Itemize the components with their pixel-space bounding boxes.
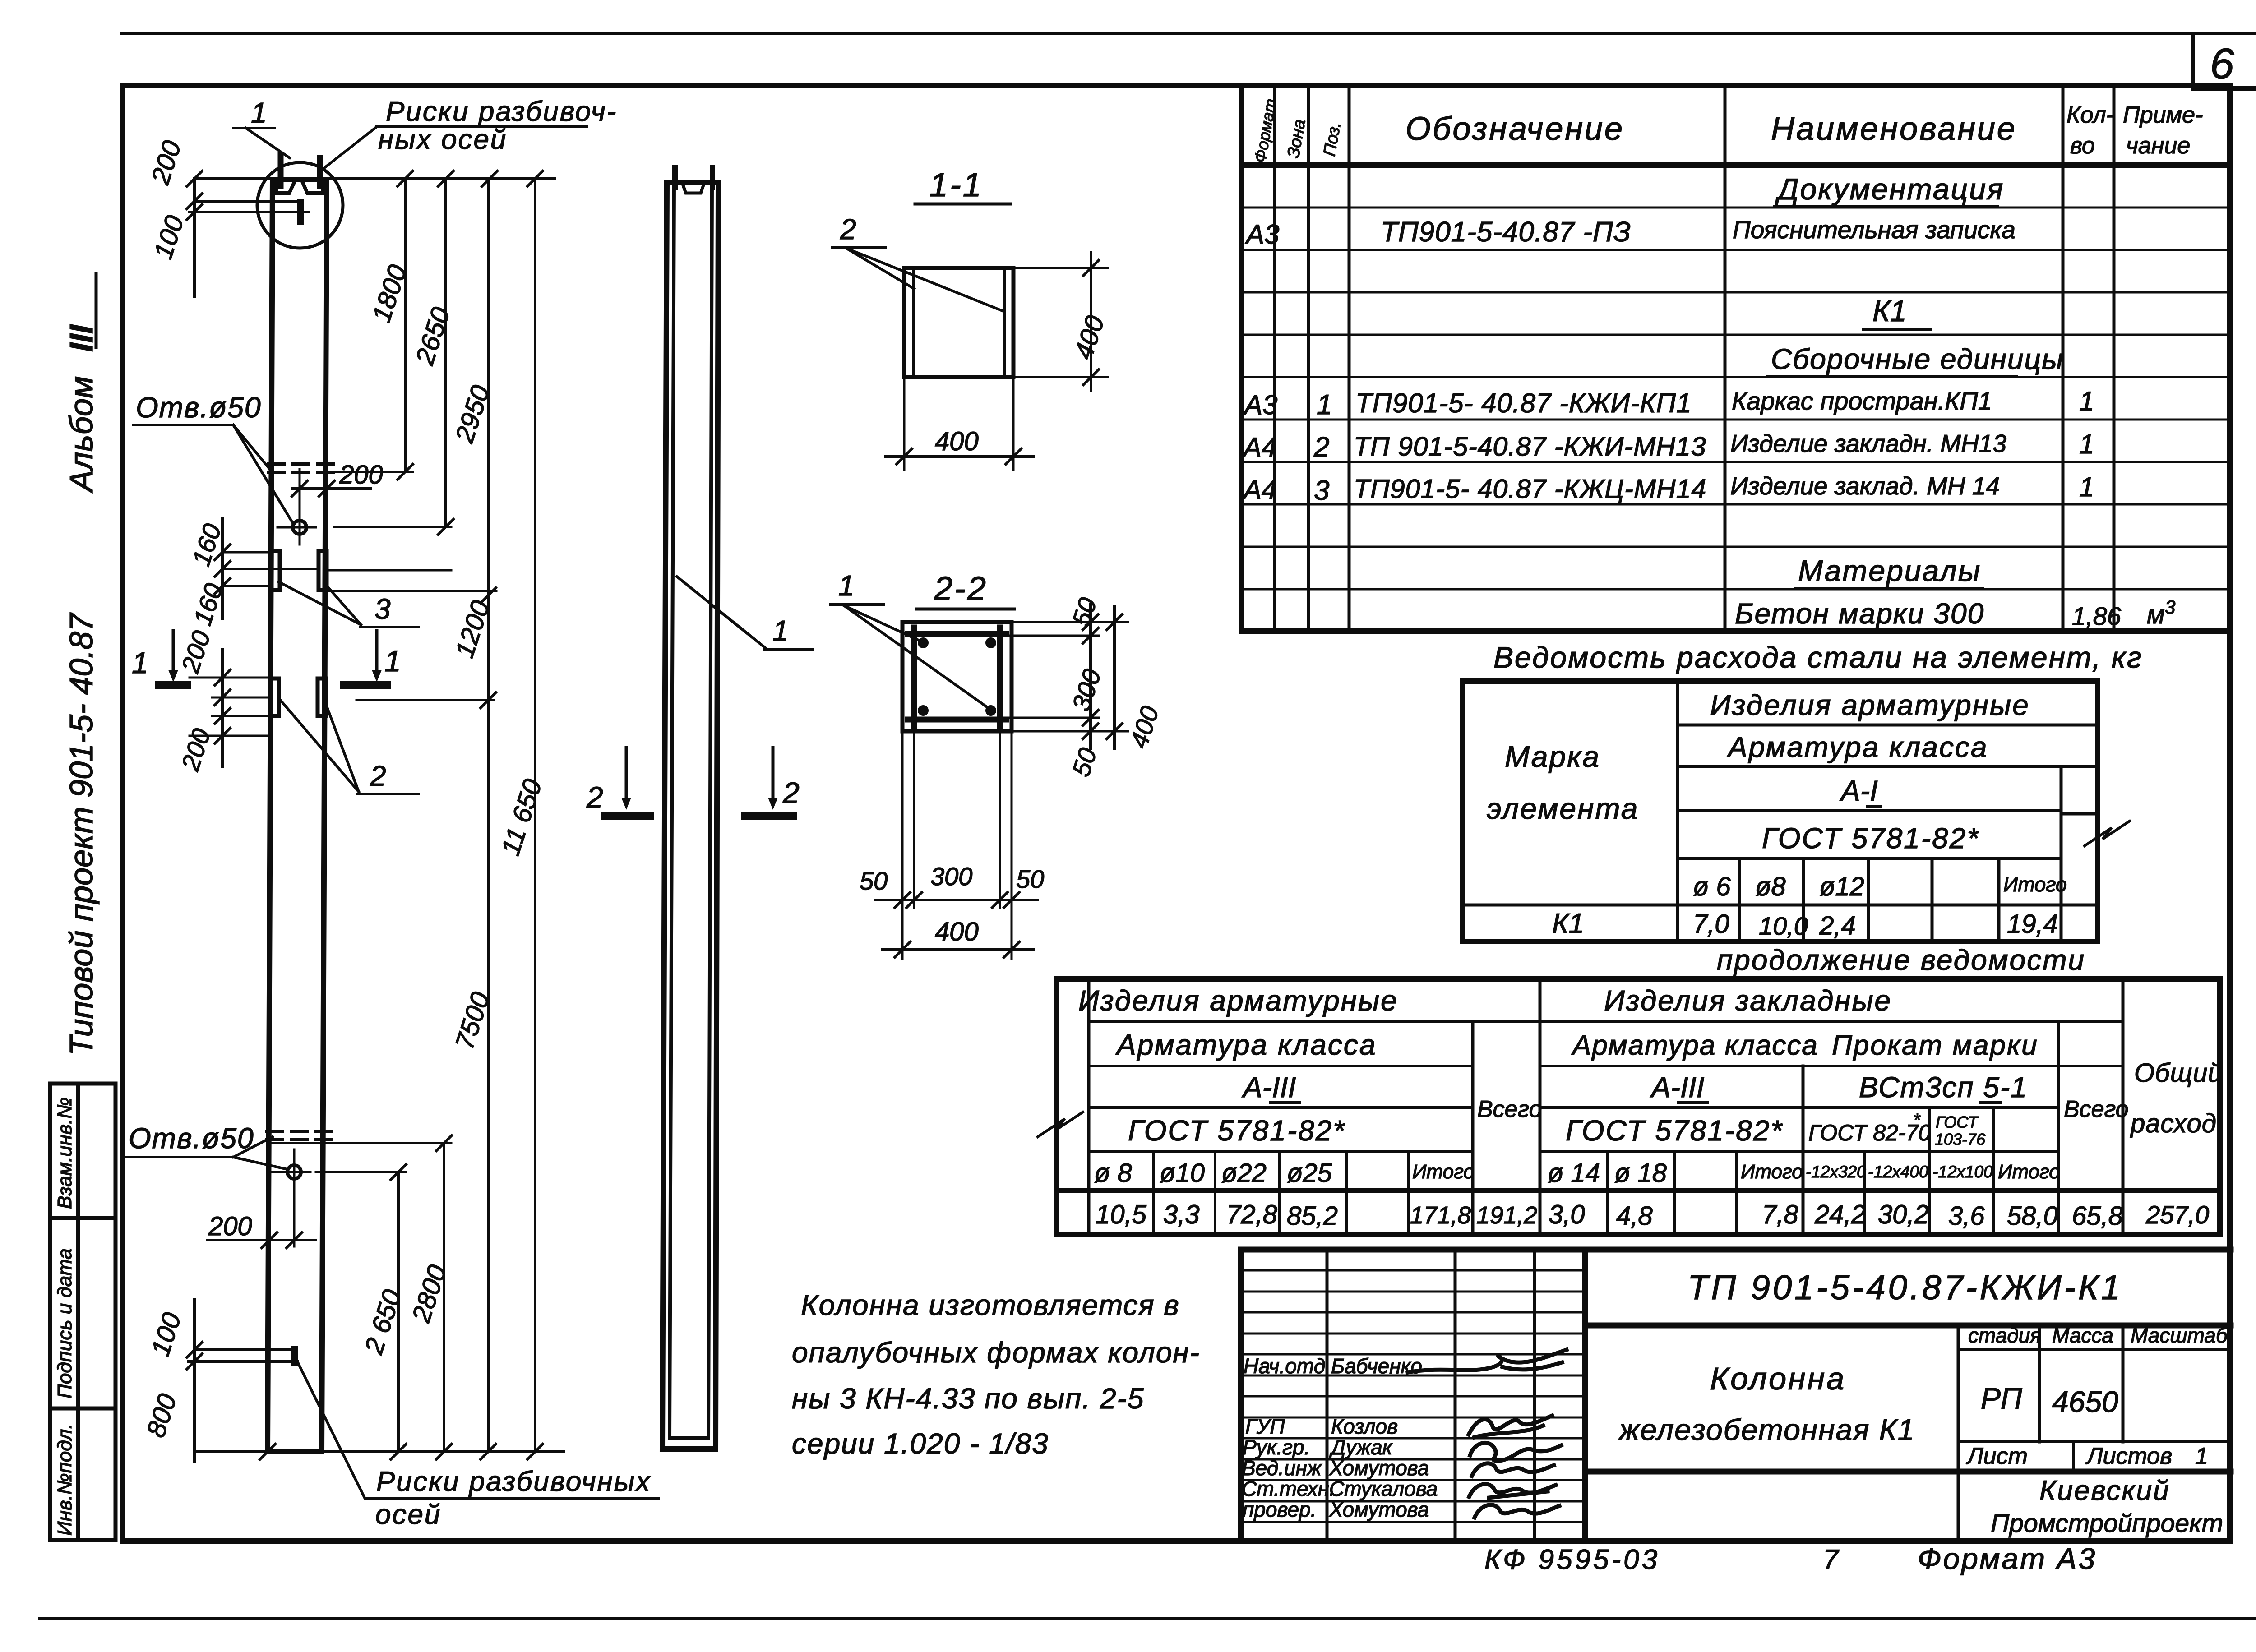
- callout 2 on section 1-1: [832, 213, 1003, 311]
- stamp label Взам.инв.№: [54, 1097, 76, 1209]
- svg-text:Зона: Зона: [1284, 118, 1309, 159]
- svg-text:4650: 4650: [2052, 1385, 2118, 1418]
- svg-text:Материалы: Материалы: [1798, 554, 1981, 587]
- svg-text:1: 1: [2079, 429, 2094, 459]
- svg-text:Поз.: Поз.: [1320, 120, 1345, 158]
- svg-text:Изделие закладн. МН13: Изделие закладн. МН13: [1730, 429, 2006, 457]
- svg-text:ГОСТ 5781-82*: ГОСТ 5781-82*: [1762, 822, 1979, 854]
- embedded plate dashed top: [269, 464, 334, 472]
- dimension 400 right of section 1-1: [1013, 253, 1110, 391]
- dimension chain 200/200: [176, 627, 271, 774]
- vedomost header Изделия арматурные: [1710, 689, 2030, 721]
- svg-text:Арматура класса: Арматура класса: [1115, 1029, 1377, 1061]
- svg-text:200: 200: [176, 725, 216, 774]
- svg-text:50: 50: [1016, 865, 1044, 893]
- title block grid: [1241, 1250, 2231, 1541]
- axis mark (riska) at bottom: [189, 1349, 298, 1363]
- svg-text:3,3: 3,3: [1163, 1200, 1200, 1229]
- section 2-2 stirrup: [908, 628, 1006, 726]
- stage mass scale headers: [1968, 1324, 2228, 1347]
- svg-text:400: 400: [1069, 312, 1110, 363]
- dimension chain 50/300/50 right of section 2-2: [1000, 594, 1128, 780]
- cont header Общий расход: [2130, 1058, 2223, 1138]
- embedded plate dashed bottom: [267, 1131, 332, 1140]
- svg-text:К1: К1: [1872, 294, 1907, 328]
- svg-text:Обозначение: Обозначение: [1405, 111, 1624, 147]
- svg-text:300: 300: [1066, 665, 1106, 714]
- svg-text:А3: А3: [1245, 219, 1279, 249]
- svg-text:Колонна: Колонна: [1710, 1361, 1846, 1396]
- section 1-1 square: [904, 268, 1013, 377]
- extension line mid plate level: [329, 569, 451, 572]
- svg-text:1: 1: [1317, 389, 1332, 420]
- svg-text:65,8: 65,8: [2072, 1201, 2123, 1231]
- cont data row: [1096, 1200, 2209, 1231]
- page number box 6: [2193, 35, 2256, 88]
- svg-text:1: 1: [2079, 386, 2094, 416]
- dimension 200 at bottom hole: [208, 1212, 316, 1248]
- svg-text:19,4: 19,4: [2007, 909, 2058, 939]
- svg-text:6: 6: [2210, 40, 2234, 88]
- svg-text:103-76: 103-76: [1935, 1130, 1986, 1149]
- svg-text:Взам.инв.№: Взам.инв.№: [54, 1097, 76, 1209]
- section mark 1 left: [132, 631, 187, 685]
- spec header Обозначение: [1405, 111, 1624, 147]
- svg-text:ø12: ø12: [1819, 872, 1864, 901]
- extension line 1200 level: [356, 699, 494, 701]
- svg-text:ГОСТ: ГОСТ: [1936, 1113, 1979, 1131]
- specification table grid: [1241, 86, 2231, 631]
- dimension line 2650 bottom: [359, 1164, 407, 1452]
- label Риски разбивочных осей top: [324, 96, 617, 168]
- callout 1 top: [233, 97, 290, 158]
- section 1-1 title: [915, 166, 1011, 204]
- section 1-1 inner plate lines: [913, 269, 1004, 376]
- svg-text:2650: 2650: [410, 304, 456, 369]
- svg-text:железобетонная К1: железобетонная К1: [1618, 1413, 1915, 1446]
- section mark 2 right: [745, 748, 800, 816]
- column K1 front elevation outline: [268, 180, 327, 1452]
- svg-text:2: 2: [1313, 432, 1329, 463]
- footer Формат А3: [1918, 1542, 2097, 1575]
- cont header ВСт3сп 5-1: [1859, 1071, 2028, 1103]
- svg-text:КФ 9595-03: КФ 9595-03: [1484, 1544, 1660, 1575]
- svg-text:Вед.инж: Вед.инж: [1242, 1456, 1322, 1480]
- svg-text:1: 1: [2195, 1443, 2208, 1469]
- svg-text:1: 1: [2079, 472, 2094, 502]
- svg-text:Промстройпроект: Промстройпроект: [1991, 1509, 2223, 1538]
- cont diameters row: [1094, 1158, 2060, 1188]
- svg-text:Рук.гр.: Рук.гр.: [1243, 1435, 1310, 1459]
- dimension chain 50/300/50 below section 2-2: [860, 722, 1044, 959]
- hole Otv50 top: [277, 469, 316, 545]
- column2 rebar stub right: [710, 167, 715, 187]
- vedomost header А-I: [1839, 775, 1881, 807]
- svg-text:1: 1: [251, 97, 267, 129]
- svg-text:ТП901-5-40.87 -ПЗ: ТП901-5-40.87 -ПЗ: [1381, 217, 1631, 248]
- cont header Всего left: [1477, 1096, 1542, 1122]
- svg-text:1: 1: [384, 644, 401, 678]
- rebar dots: [918, 637, 996, 716]
- svg-text:Нач.отд: Нач.отд: [1244, 1354, 1325, 1378]
- cont header Всего right: [2064, 1096, 2129, 1122]
- extension line hole level bottom: [316, 1171, 406, 1173]
- continuation break mark: [1038, 1112, 1083, 1137]
- stage value РП: [1981, 1381, 2022, 1415]
- spec header Наименование: [1771, 111, 2017, 147]
- svg-text:160: 160: [188, 580, 228, 628]
- svg-text:3,0: 3,0: [1549, 1200, 1585, 1229]
- svg-text:3,6: 3,6: [1948, 1201, 1985, 1231]
- svg-text:элемента: элемента: [1487, 792, 1639, 825]
- svg-text:Ведомость расхода стали: Ведомость расхода стали на элемент, кг: [1493, 641, 2143, 674]
- svg-text:400: 400: [935, 427, 979, 456]
- svg-text:ТП901-5- 40.87 -КЖЦ-МН14: ТП901-5- 40.87 -КЖЦ-МН14: [1354, 474, 1706, 504]
- svg-text:50: 50: [860, 867, 888, 895]
- cont header Прокат марки: [1832, 1030, 2039, 1061]
- svg-text:А-III: А-III: [1241, 1071, 1296, 1103]
- svg-text:200: 200: [145, 137, 187, 188]
- spec header Зона: [1284, 118, 1309, 159]
- svg-text:160: 160: [186, 520, 227, 569]
- svg-text:1,86: 1,86: [2072, 602, 2122, 630]
- svg-text:400: 400: [935, 917, 979, 946]
- svg-text:Инв.№подл.: Инв.№подл.: [54, 1423, 76, 1536]
- dimension line 2650: [410, 179, 456, 535]
- svg-text:ø8: ø8: [1755, 872, 1786, 901]
- label Otv.50 bottom: [126, 1122, 287, 1169]
- svg-text:200: 200: [339, 460, 383, 489]
- svg-text:7,8: 7,8: [1762, 1200, 1798, 1229]
- svg-text:Козлов: Козлов: [1331, 1415, 1398, 1438]
- svg-text:171,8: 171,8: [1410, 1202, 1471, 1229]
- svg-text:Марка: Марка: [1505, 740, 1600, 773]
- spec header Примечание: [2123, 102, 2203, 159]
- svg-text:10,5: 10,5: [1096, 1200, 1147, 1229]
- svg-text:85,2: 85,2: [1287, 1201, 1338, 1231]
- svg-text:расход: расход: [2130, 1109, 2217, 1138]
- svg-text:3: 3: [1314, 475, 1329, 506]
- svg-text:Типовой проект 901-5- 40.87: Типовой проект 901-5- 40.87: [64, 612, 100, 1056]
- svg-text:ø 6: ø 6: [1693, 872, 1731, 901]
- svg-text:ø25: ø25: [1287, 1158, 1332, 1188]
- svg-text:3: 3: [374, 593, 391, 625]
- vedomost header Арматура класса: [1726, 731, 1988, 763]
- dimension 400 far right of section 2-2: [1107, 607, 1164, 752]
- column top recess left: [276, 180, 295, 193]
- stamp label Подпись и дата: [54, 1248, 76, 1398]
- svg-text:100: 100: [146, 1309, 187, 1360]
- svg-text:Ст.техн.: Ст.техн.: [1242, 1477, 1335, 1500]
- dimension chain 160/160: [186, 519, 316, 629]
- svg-text:100: 100: [148, 212, 190, 263]
- svg-text:2: 2: [370, 760, 386, 792]
- svg-text:Стукалова: Стукалова: [1329, 1477, 1438, 1500]
- dimension 800 bottom-left: [141, 1390, 183, 1441]
- svg-text:продолжение ведомости: продолжение ведомости: [1717, 944, 2085, 976]
- cont header ГОСТ 5781-82 left: [1128, 1114, 1345, 1147]
- svg-text:Приме-: Приме-: [2123, 102, 2203, 128]
- svg-text:III: III: [64, 324, 100, 352]
- svg-text:30,2: 30,2: [1878, 1200, 1929, 1229]
- svg-text:серии 1.020 - 1/83: серии 1.020 - 1/83: [792, 1427, 1049, 1460]
- svg-text:Изделия арматурные: Изделия арматурные: [1710, 689, 2030, 721]
- svg-text:Наименование: Наименование: [1771, 111, 2017, 147]
- extension line 1800 level: [327, 471, 413, 473]
- svg-text:4,8: 4,8: [1616, 1201, 1653, 1231]
- svg-text:ГОСТ 5781-82*: ГОСТ 5781-82*: [1128, 1114, 1345, 1147]
- svg-text:2,4: 2,4: [1819, 911, 1856, 941]
- hole Otv50 bottom: [272, 1149, 310, 1246]
- svg-text:Итого: Итого: [2003, 873, 2067, 896]
- section 2-2 square: [902, 622, 1012, 731]
- svg-text:Хомутова: Хомутова: [1329, 1456, 1429, 1480]
- svg-text:Арматура класса: Арматура класса: [1571, 1030, 1818, 1061]
- svg-text:Масштаб: Масштаб: [2131, 1324, 2228, 1347]
- svg-text:Итого: Итого: [1741, 1161, 1803, 1183]
- svg-text:400: 400: [1124, 702, 1164, 751]
- vedomost title: [1493, 641, 2143, 674]
- svg-text:Отв.ø50: Отв.ø50: [129, 1122, 254, 1154]
- svg-text:Формат А3: Формат А3: [1918, 1542, 2097, 1575]
- spec row Материалы: [1795, 554, 1983, 588]
- side title Альбом III: [64, 274, 100, 494]
- svg-text:Альбом: Альбом: [64, 376, 100, 494]
- svg-text:осей: осей: [375, 1499, 441, 1530]
- vedomost row К1: [1552, 908, 2058, 941]
- embedded plate 2 lower left: [271, 678, 279, 716]
- section mark 2 left: [586, 748, 650, 816]
- column2 rebar stub left: [672, 167, 678, 187]
- svg-text:м: м: [2147, 600, 2165, 629]
- svg-text:Дужак: Дужак: [1329, 1435, 1393, 1459]
- svg-text:Документация: Документация: [1775, 172, 2004, 206]
- cont header А-III left: [1241, 1071, 1299, 1103]
- dimension 400 bottom of section 2-2: [882, 917, 1033, 957]
- spec row КП1: [1243, 386, 2094, 420]
- axis mark (riska) at top: [190, 201, 309, 222]
- spec row МН14: [1242, 472, 2094, 506]
- svg-text:ø 18: ø 18: [1614, 1158, 1667, 1188]
- svg-text:Бетон марки 300: Бетон марки 300: [1735, 597, 1984, 630]
- spec row Документация: [1774, 172, 2004, 207]
- svg-text:24,2: 24,2: [1814, 1200, 1866, 1229]
- svg-text:ø 8: ø 8: [1094, 1158, 1132, 1188]
- prodolzhenie label: [1717, 944, 2085, 976]
- svg-text:Риски разбивоч-: Риски разбивоч-: [386, 96, 617, 127]
- label Otv.50 top: [134, 391, 292, 522]
- svg-text:ны 3 КН-4.33 по вып. 2-5: ны 3 КН-4.33 по вып. 2-5: [792, 1382, 1144, 1415]
- svg-text:Итого: Итого: [1998, 1161, 2060, 1183]
- svg-text:Листов: Листов: [2085, 1443, 2172, 1469]
- svg-text:Киевский: Киевский: [2039, 1475, 2170, 1506]
- callout 1 on section 2-2: [830, 569, 990, 709]
- title name Колонна железобетонная К1: [1618, 1361, 1915, 1446]
- column2 top recess: [682, 183, 704, 193]
- vedomost diameters: [1693, 872, 2067, 901]
- cont header ГОСТ 5781-82 right: [1566, 1114, 1783, 1147]
- column top recess right: [302, 180, 323, 193]
- cont header Арматура класса left: [1115, 1029, 1377, 1061]
- dimension line 11650: [496, 179, 548, 1452]
- svg-text:ГОСТ 5781-82*: ГОСТ 5781-82*: [1566, 1114, 1783, 1147]
- vedomost header ГОСТ 5781-82: [1762, 822, 1979, 854]
- svg-text:2: 2: [586, 780, 603, 814]
- sheet top edge line: [122, 32, 2256, 35]
- svg-text:72,8: 72,8: [1226, 1200, 1277, 1229]
- staff row Вед.инж Хомутова: [1242, 1456, 1554, 1480]
- staff row Рук.гр. Дужак: [1243, 1435, 1561, 1461]
- svg-text:чание: чание: [2126, 133, 2190, 159]
- spec header Кол-во: [2066, 102, 2114, 159]
- staff row Ст.техн. Стукалова: [1242, 1477, 1556, 1500]
- svg-text:-12x320: -12x320: [1806, 1163, 1866, 1181]
- svg-text:Кол-: Кол-: [2066, 102, 2114, 128]
- svg-text:2 650: 2 650: [359, 1286, 407, 1358]
- staff row провер. Хомутова: [1243, 1498, 1559, 1521]
- svg-text:50: 50: [1066, 744, 1102, 780]
- continuation table grid: [1057, 979, 2220, 1235]
- svg-text:Подпись и дата: Подпись и дата: [54, 1248, 76, 1398]
- dimension 200 at top hole: [292, 460, 383, 496]
- svg-text:191,2: 191,2: [1476, 1202, 1537, 1229]
- svg-text:А-III: А-III: [1650, 1071, 1705, 1103]
- dimension 100 top-left: [148, 212, 190, 263]
- svg-text:Итого: Итого: [1412, 1161, 1475, 1183]
- svg-text:А3: А3: [1243, 390, 1277, 420]
- spec header Поз.: [1320, 120, 1345, 158]
- spec row К1: [1863, 294, 1931, 329]
- footer sheet number 7: [1823, 1544, 1840, 1575]
- svg-text:Изделия закладные: Изделия закладные: [1604, 984, 1892, 1017]
- svg-text:А4: А4: [1242, 432, 1276, 462]
- svg-text:ных осей: ных осей: [378, 124, 507, 155]
- vedomost break mark: [2085, 821, 2130, 846]
- dimension line 2950 / 1200 / 7500: [449, 179, 496, 1452]
- footer text КФ 9595-03: [1484, 1544, 1660, 1575]
- cont header А-III right: [1650, 1071, 1708, 1103]
- column K1 side view outline: [662, 183, 718, 1449]
- vedomost table grid: [1463, 681, 2098, 941]
- svg-text:50: 50: [1066, 594, 1102, 630]
- svg-text:Колонна изготовляется в: Колонна изготовляется в: [801, 1289, 1180, 1321]
- callout 2 on plates: [279, 698, 419, 794]
- bottom base dimension line: [194, 1444, 564, 1459]
- rebar stub left: [278, 155, 284, 186]
- svg-text:Риски разбивочных: Риски разбивочных: [376, 1466, 651, 1497]
- spec header Формат: [1251, 97, 1280, 164]
- spec row Бетон: [1735, 596, 2175, 630]
- svg-text:А-I: А-I: [1839, 775, 1878, 807]
- svg-text:Всего: Всего: [1477, 1096, 1542, 1122]
- svg-text:А4: А4: [1242, 475, 1276, 505]
- svg-text:-12x100: -12x100: [1932, 1163, 1993, 1181]
- sheet bottom edge line: [40, 1617, 2256, 1620]
- svg-text:Общий: Общий: [2134, 1058, 2223, 1088]
- svg-text:опалубочных формах колон-: опалубочных формах колон-: [792, 1336, 1200, 1369]
- section mark 1 right: [344, 631, 401, 685]
- detail circle: [257, 162, 343, 248]
- svg-text:-12x400: -12x400: [1868, 1163, 1928, 1181]
- svg-text:1-1: 1-1: [929, 166, 983, 203]
- svg-text:11 650: 11 650: [496, 775, 548, 859]
- svg-text:стадия: стадия: [1968, 1324, 2041, 1347]
- svg-text:К1: К1: [1552, 908, 1584, 939]
- label Риски разбивочных осей bottom: [296, 1359, 659, 1530]
- svg-text:Лист: Лист: [1966, 1443, 2028, 1469]
- extension line plate bottom level: [327, 590, 496, 592]
- svg-text:ТП 901-5-40.87-КЖИ-К1: ТП 901-5-40.87-КЖИ-К1: [1687, 1269, 2123, 1307]
- svg-text:ТП901-5- 40.87 -КЖИ-КП1: ТП901-5- 40.87 -КЖИ-КП1: [1355, 388, 1692, 418]
- top dimension base line: [194, 171, 555, 186]
- stamp label Инв.№подл.: [54, 1423, 76, 1536]
- svg-text:во: во: [2070, 133, 2095, 159]
- dimension line 1800: [367, 179, 413, 480]
- svg-text:Сборочные единицы: Сборочные единицы: [1771, 343, 2064, 375]
- dimension 400 below section 1-1: [885, 377, 1033, 470]
- svg-text:200: 200: [176, 627, 216, 676]
- svg-text:1: 1: [772, 614, 789, 647]
- svg-text:провер.: провер.: [1243, 1498, 1316, 1521]
- svg-text:1: 1: [838, 569, 855, 602]
- svg-text:3: 3: [2165, 596, 2175, 618]
- svg-text:10,0: 10,0: [1759, 912, 1808, 940]
- svg-text:ГОСТ 82-70: ГОСТ 82-70: [1808, 1120, 1931, 1145]
- cont header Арматура класса right: [1571, 1030, 1818, 1061]
- sheet row Лист Листов: [1966, 1443, 2208, 1469]
- svg-text:Отв.ø50: Отв.ø50: [136, 391, 262, 424]
- mass value 4650: [2052, 1385, 2118, 1418]
- cont header ГОСТ 82-70: [1808, 1110, 1931, 1145]
- svg-text:ВСт3сп 5-1: ВСт3сп 5-1: [1859, 1071, 2028, 1103]
- cont header Изделия арматурные: [1078, 984, 1398, 1017]
- extension line 2800 level bottom: [273, 1142, 451, 1144]
- staff row Нач.отд Бабченко: [1244, 1350, 1567, 1378]
- vedomost header Марка элемента: [1487, 740, 1639, 825]
- svg-text:7: 7: [1823, 1544, 1840, 1575]
- title doc number: [1687, 1269, 2123, 1307]
- svg-text:ø22: ø22: [1221, 1158, 1267, 1188]
- spec row ПЗ: [1245, 216, 2016, 249]
- cont header Изделия закладные: [1604, 984, 1892, 1017]
- svg-text:800: 800: [141, 1390, 183, 1441]
- section 2-2 title: [917, 570, 1014, 609]
- svg-text:1: 1: [132, 646, 148, 679]
- spec row МН13: [1242, 429, 2094, 463]
- embedded plate 3 upper left: [272, 551, 280, 590]
- dimension 100 bottom-left: [146, 1299, 202, 1462]
- svg-text:Каркас простран.КП1: Каркас простран.КП1: [1732, 387, 1992, 415]
- svg-text:Изделие заклад. МН 14: Изделие заклад. МН 14: [1730, 472, 2000, 500]
- spec row Сборочные единицы: [1768, 343, 2064, 376]
- svg-text:Прокат марки: Прокат марки: [1832, 1030, 2039, 1061]
- callout 3: [279, 582, 419, 627]
- svg-text:58,0: 58,0: [2007, 1201, 2058, 1231]
- svg-text:Всего: Всего: [2064, 1096, 2129, 1122]
- column side inner chamfer lines: [670, 183, 712, 1438]
- dimension 200 top-left: [145, 137, 202, 297]
- svg-text:2: 2: [840, 213, 856, 245]
- svg-text:*: *: [1913, 1110, 1921, 1130]
- svg-text:200: 200: [208, 1212, 252, 1241]
- svg-text:ТП 901-5-40.87 -КЖИ-МН13: ТП 901-5-40.87 -КЖИ-МН13: [1354, 432, 1706, 461]
- cont header ГОСТ 103-76: [1935, 1113, 1986, 1149]
- side title Типовой проект 901-5-40.87: [64, 612, 100, 1056]
- svg-text:Пояснительная записка: Пояснительная записка: [1733, 216, 2016, 244]
- svg-text:Масса: Масса: [2052, 1324, 2113, 1347]
- svg-text:2-2: 2-2: [934, 570, 988, 607]
- svg-text:Изделия арматурные: Изделия арматурные: [1078, 984, 1398, 1017]
